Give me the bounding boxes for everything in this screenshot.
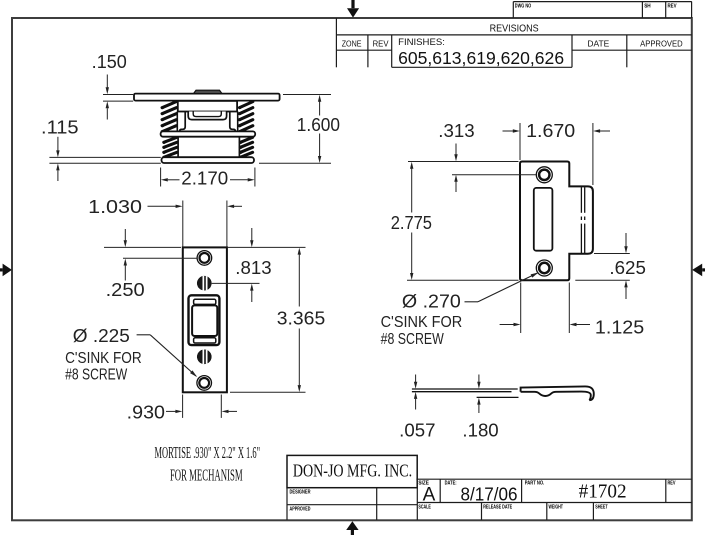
svg-text:605,613,619,620,626: 605,613,619,620,626: [398, 48, 564, 68]
svg-text:.930: .930: [127, 403, 165, 423]
svg-text:A: A: [423, 484, 436, 505]
svg-text:FINISHES:: FINISHES:: [398, 37, 445, 48]
svg-text:.115: .115: [41, 118, 79, 138]
svg-text:REVISIONS: REVISIONS: [490, 23, 539, 35]
svg-text:WEIGHT: WEIGHT: [549, 505, 564, 511]
svg-text:.250: .250: [106, 280, 145, 300]
svg-text:.313: .313: [438, 121, 474, 141]
svg-text:#8 SCREW: #8 SCREW: [381, 331, 445, 348]
svg-text:2.170: 2.170: [181, 169, 228, 189]
svg-text:PART NO.: PART NO.: [525, 481, 545, 487]
svg-text:1.030: 1.030: [88, 197, 142, 217]
svg-text:Ø .270: Ø .270: [402, 291, 461, 311]
svg-text:DATE: DATE: [587, 38, 609, 48]
svg-text:Ø .225: Ø .225: [73, 326, 130, 346]
svg-text:APPROVED: APPROVED: [290, 506, 311, 512]
svg-text:#8 SCREW: #8 SCREW: [65, 366, 128, 383]
svg-text:.625: .625: [609, 258, 646, 278]
svg-text:REV: REV: [373, 38, 389, 48]
svg-text:1.600: 1.600: [297, 115, 340, 135]
svg-text:REV: REV: [668, 3, 677, 9]
svg-text:3.365: 3.365: [277, 308, 325, 328]
svg-text:.057: .057: [399, 420, 435, 440]
svg-text:C'SINK FOR: C'SINK FOR: [381, 314, 463, 331]
svg-text:DESIGNER: DESIGNER: [290, 489, 311, 495]
svg-text:1.670: 1.670: [526, 121, 575, 141]
svg-text:.813: .813: [235, 258, 271, 278]
svg-text:MORTISE .930" X 2.2" X 1.6": MORTISE .930" X 2.2" X 1.6": [155, 443, 261, 462]
svg-text:SCALE: SCALE: [418, 505, 431, 511]
svg-text:C'SINK FOR: C'SINK FOR: [65, 350, 142, 367]
svg-text:8/17/06: 8/17/06: [461, 484, 518, 504]
svg-text:SH: SH: [644, 3, 651, 9]
svg-text:APPROVED: APPROVED: [640, 38, 683, 48]
svg-text:DATE:: DATE:: [445, 481, 457, 487]
svg-text:SHEET: SHEET: [595, 505, 608, 511]
svg-text:.150: .150: [92, 52, 127, 72]
svg-text:REV: REV: [668, 481, 676, 487]
svg-text:RELEASE DATE: RELEASE DATE: [483, 505, 512, 511]
svg-text:DON-JO MFG. INC.: DON-JO MFG. INC.: [293, 461, 412, 481]
svg-text:#1702: #1702: [579, 482, 627, 503]
svg-text:ZONE: ZONE: [342, 38, 362, 48]
svg-text:1.125: 1.125: [595, 317, 644, 337]
svg-text:FOR MECHANISM: FOR MECHANISM: [170, 466, 243, 485]
svg-text:.180: .180: [462, 420, 498, 440]
svg-text:DWG NO: DWG NO: [515, 3, 532, 9]
svg-text:2.775: 2.775: [391, 213, 432, 233]
